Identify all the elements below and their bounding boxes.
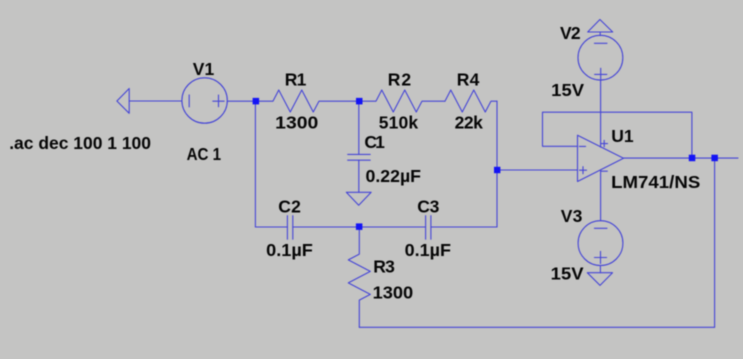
feedback loop wire: [543, 112, 692, 158]
svg-text:R1: R1: [285, 70, 307, 90]
bottom feedback wire: [359, 326, 714, 328]
capacitor C1: [348, 153, 371, 155]
wire node A down to C1: [358, 101, 360, 154]
junction output 1: [689, 155, 696, 162]
svg-text:510k: 510k: [379, 113, 419, 133]
junction node IN: [253, 98, 260, 105]
junction node B (+input): [494, 167, 500, 173]
output wire: [624, 157, 739, 159]
wire R4 down to + input node: [496, 101, 498, 227]
wire node IN down: [254, 101, 256, 227]
junction node A: [356, 98, 363, 105]
wire V1 to node IN: [227, 100, 255, 102]
wire C row left: [255, 226, 287, 228]
wire arrow to V1: [129, 100, 182, 102]
wire C3 right: [431, 226, 497, 228]
svg-text:15V: 15V: [551, 80, 584, 100]
port arrow (input flag): [117, 89, 129, 114]
op-amp input marks: [579, 145, 585, 147]
voltage source V3: [578, 221, 623, 266]
resistor R3: [348, 227, 370, 327]
svg-text:V3: V3: [561, 206, 583, 226]
svg-text:LM741/NS: LM741/NS: [611, 172, 700, 192]
svg-text:.ac dec 100 1 100: .ac dec 100 1 100: [9, 133, 151, 153]
voltage source V1: [182, 78, 227, 123]
svg-text:0.22µF: 0.22µF: [366, 166, 422, 186]
svg-text:U1: U1: [611, 126, 634, 146]
svg-text:1300: 1300: [373, 283, 414, 303]
svg-text:C2: C2: [278, 197, 301, 217]
svg-text:0.1µF: 0.1µF: [405, 240, 452, 260]
svg-text:R4: R4: [457, 70, 480, 90]
resistor R2: [359, 90, 445, 112]
svg-text:AC 1: AC 1: [187, 144, 222, 164]
junction output 2: [711, 155, 718, 162]
svg-text:0.1µF: 0.1µF: [266, 240, 313, 260]
wire C2 to C3: [293, 226, 426, 228]
svg-text:22k: 22k: [455, 113, 484, 133]
svg-text:C1: C1: [364, 132, 385, 152]
svg-text:V1: V1: [193, 59, 215, 79]
ground under V3: [587, 273, 612, 286]
power rail wire V2 to V3: [600, 80, 602, 147]
voltage source V2: [588, 20, 613, 33]
junction node C row: [356, 223, 363, 230]
wire node B to op-amp + input: [497, 169, 578, 171]
svg-text:15V: 15V: [551, 264, 584, 284]
svg-text:R3: R3: [373, 257, 395, 277]
svg-text:R2: R2: [388, 70, 412, 90]
resistor R4: [445, 90, 497, 112]
capacitor C2: [286, 216, 288, 240]
op-amp U1 triangle: [578, 135, 624, 181]
svg-text:C3: C3: [417, 197, 439, 217]
ground under C1: [346, 192, 371, 205]
svg-text:V2: V2: [560, 23, 581, 43]
op-amp power marks: [601, 143, 608, 145]
resistor R1: [255, 90, 359, 112]
svg-text:1300: 1300: [275, 113, 318, 133]
capacitor C3: [425, 216, 427, 240]
